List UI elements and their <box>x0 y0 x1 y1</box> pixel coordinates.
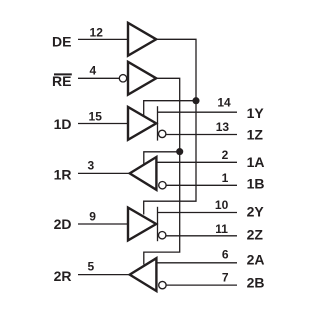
svg-text:6: 6 <box>222 247 229 261</box>
svg-text:1R: 1R <box>54 166 72 182</box>
svg-text:1: 1 <box>222 171 229 185</box>
svg-text:2Y: 2Y <box>247 203 265 219</box>
svg-text:13: 13 <box>216 120 230 134</box>
svg-text:2B: 2B <box>247 275 265 291</box>
svg-text:RE: RE <box>52 73 71 89</box>
svg-text:7: 7 <box>222 271 229 285</box>
svg-text:2D: 2D <box>54 216 72 232</box>
svg-text:14: 14 <box>217 96 231 110</box>
svg-text:4: 4 <box>90 64 97 78</box>
svg-text:12: 12 <box>90 25 104 39</box>
svg-text:1D: 1D <box>54 116 72 132</box>
svg-text:9: 9 <box>89 210 96 224</box>
svg-text:1Y: 1Y <box>247 105 265 121</box>
svg-text:11: 11 <box>215 222 228 236</box>
svg-text:2A: 2A <box>247 252 265 268</box>
svg-text:1Z: 1Z <box>247 126 264 142</box>
svg-text:15: 15 <box>89 110 103 124</box>
svg-text:5: 5 <box>88 259 95 273</box>
svg-text:1B: 1B <box>247 176 265 192</box>
svg-text:1A: 1A <box>247 154 265 170</box>
svg-text:2R: 2R <box>54 268 72 284</box>
svg-text:10: 10 <box>215 198 229 212</box>
svg-text:3: 3 <box>88 158 95 172</box>
svg-text:DE: DE <box>52 34 71 50</box>
svg-text:2: 2 <box>222 148 229 162</box>
svg-text:2Z: 2Z <box>247 227 264 243</box>
